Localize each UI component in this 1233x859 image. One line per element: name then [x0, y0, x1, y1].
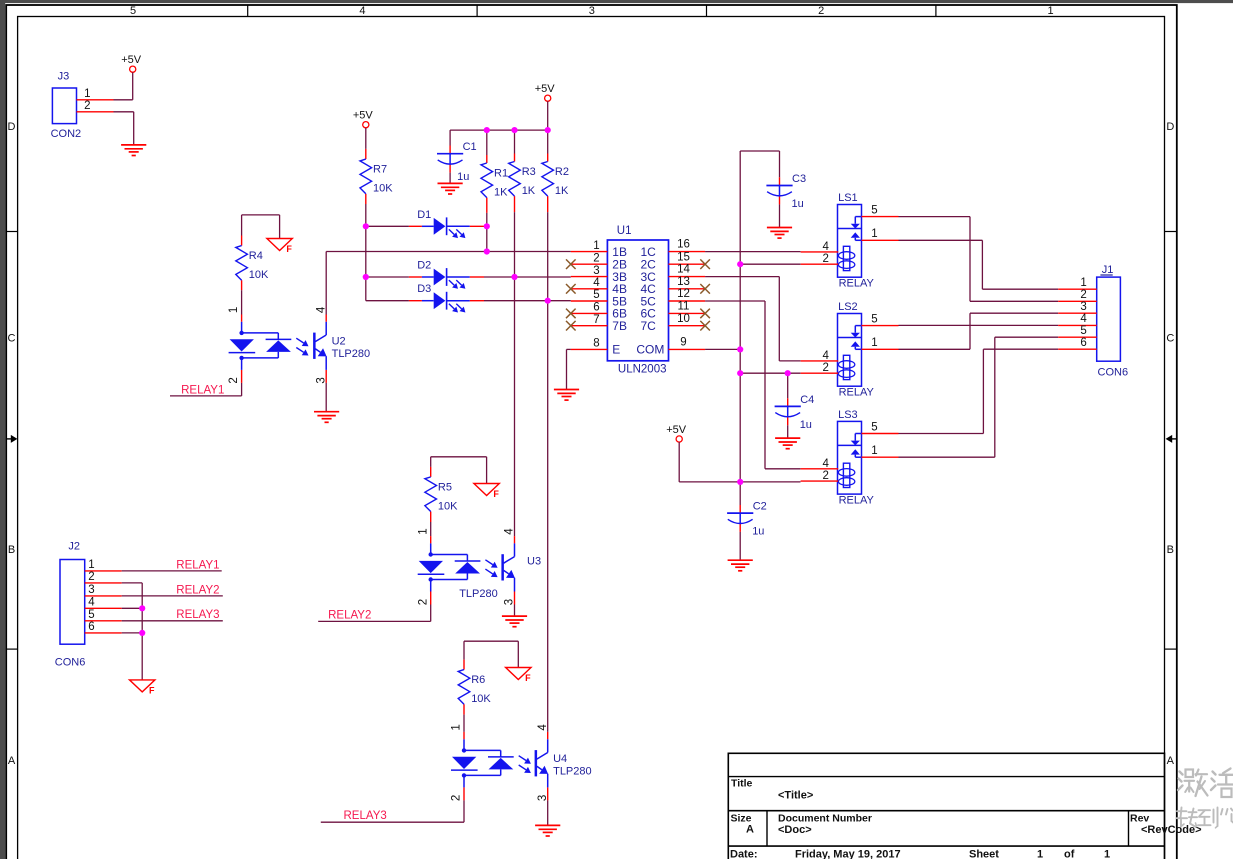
svg-text:4: 4 — [537, 724, 549, 731]
wire COM rail to C3 — [740, 150, 779, 152]
wire R5 bottom to U3 pin1 — [430, 522, 432, 536]
svg-text:6: 6 — [593, 302, 599, 314]
wire LS2 pin5 to J1 pin4 — [899, 324, 1059, 326]
wire LS2 pin1 to J1 pin3 — [899, 348, 971, 350]
svg-text:3: 3 — [589, 5, 595, 17]
resistor R7 — [360, 159, 393, 195]
resistor R4 — [236, 246, 269, 282]
svg-text:J2: J2 — [68, 541, 80, 553]
junction rail R3 — [511, 127, 517, 133]
svg-text:2: 2 — [823, 253, 829, 265]
svg-text:1K: 1K — [522, 185, 536, 197]
wire J3 pin2 to ground — [114, 111, 134, 113]
wire rail to R2 — [547, 130, 549, 153]
svg-text:F: F — [493, 489, 499, 499]
svg-text:13: 13 — [677, 276, 690, 288]
svg-text:4: 4 — [88, 597, 95, 609]
svg-text:1: 1 — [451, 724, 463, 730]
junction rail R2 — [545, 127, 551, 133]
svg-text:A: A — [746, 824, 754, 836]
svg-text:ULN2003: ULN2003 — [618, 364, 667, 376]
svg-text:5: 5 — [130, 5, 136, 17]
svg-text:D3: D3 — [417, 283, 431, 295]
junction rail LS3 pin2 — [737, 479, 743, 485]
no-connect U1 pin15 — [700, 259, 710, 269]
optocoupler U3 TLP280 — [417, 528, 541, 606]
svg-text:15: 15 — [677, 251, 690, 263]
svg-text:11: 11 — [678, 301, 690, 313]
svg-text:10K: 10K — [471, 693, 491, 705]
capacitor C3 pins — [779, 177, 781, 185]
capacitor C4 — [775, 394, 815, 431]
junction J2 pin6 — [139, 630, 145, 636]
wire rail to C1 — [449, 130, 451, 145]
svg-text:RELAY2: RELAY2 — [176, 584, 219, 596]
wire rail to R3 — [514, 130, 516, 153]
wire LS2 pin2 row to C4 — [787, 373, 789, 398]
diode D2 pins — [409, 276, 422, 278]
svg-text:3: 3 — [1080, 301, 1086, 313]
capacitor C4 pins — [787, 398, 789, 406]
opto U4 pin red stubs — [463, 732, 465, 739]
wire R4 bottom to U2 pin1 — [241, 290, 243, 314]
power +5V at rail — [535, 83, 556, 101]
power +5V at R7 — [353, 110, 374, 128]
svg-text:CON6: CON6 — [55, 656, 86, 668]
wire D1 anode row — [366, 225, 409, 227]
wire J2 pin3 RELAY2 net — [122, 595, 223, 597]
optocoupler U4 TLP280 — [451, 724, 592, 802]
ground below U1 pin8 — [554, 390, 579, 401]
ground below C1 — [438, 183, 463, 194]
svg-text:3: 3 — [88, 584, 94, 596]
wire U1 pin12 to LS3 pin4 — [705, 300, 765, 302]
wire J2 pin5 RELAY3 net — [122, 620, 223, 622]
svg-text:6: 6 — [88, 621, 94, 633]
F ground below J2 — [130, 680, 156, 696]
svg-text:+5V: +5V — [666, 424, 687, 436]
relay LS3 — [801, 409, 899, 506]
junction rail LS2 pin2 — [737, 370, 743, 376]
svg-text:E: E — [612, 343, 620, 357]
F ground above R5 — [474, 484, 500, 500]
svg-text:Title: Title — [731, 778, 753, 790]
diode D1 pins — [409, 225, 422, 227]
svg-text:RELAY1: RELAY1 — [181, 384, 224, 396]
svg-text:10: 10 — [677, 313, 690, 325]
svg-text:3: 3 — [537, 795, 549, 801]
svg-text:Rev: Rev — [1130, 813, 1149, 825]
ground below U2 — [314, 412, 339, 423]
wire U1 pin9 COM to +5V rail — [705, 348, 740, 350]
svg-text:2: 2 — [84, 100, 90, 112]
svg-text:TLP280: TLP280 — [553, 766, 592, 778]
svg-text:5: 5 — [871, 421, 877, 433]
ground below C3 — [767, 228, 792, 239]
svg-text:2: 2 — [417, 599, 429, 605]
svg-text:1: 1 — [871, 228, 877, 240]
svg-text:1: 1 — [871, 337, 877, 349]
svg-text:U2: U2 — [332, 336, 346, 348]
svg-text:D1: D1 — [417, 209, 431, 221]
wire D3 cathode to U1 pin5 — [484, 300, 571, 302]
wire J2 pin6 to ground column — [122, 632, 143, 634]
junction C4 tap — [785, 370, 791, 376]
capacitor C1 — [437, 141, 477, 183]
resistor R5 — [425, 477, 458, 513]
wire D2 cathode to U1 pin3 — [484, 276, 571, 278]
ground below U4 — [535, 825, 560, 836]
ground below C4 — [775, 438, 800, 449]
svg-text:6: 6 — [1080, 337, 1086, 349]
zone marker arrow right — [1172, 438, 1177, 440]
svg-text:4: 4 — [1080, 313, 1087, 325]
opto U2 pin red stubs — [241, 315, 243, 322]
U1 left pins — [571, 240, 627, 357]
wire D2 anode row — [366, 276, 409, 278]
resistor R1 pins — [486, 155, 488, 163]
svg-text:LS2: LS2 — [838, 301, 858, 313]
junction J2 pin4 — [139, 605, 145, 611]
svg-text:U4: U4 — [553, 753, 567, 765]
power +5V at LS3 row — [666, 424, 687, 442]
wire U3 pin2 to RELAY2 net — [430, 605, 432, 622]
svg-text:4: 4 — [593, 277, 600, 289]
diode D1 — [417, 209, 470, 238]
resistor R3 pins — [514, 154, 516, 162]
svg-text:12: 12 — [677, 288, 690, 300]
wire C2 to ground — [739, 532, 741, 560]
wire U2 pin2 to RELAY1 net — [241, 383, 243, 396]
wire COM vertical rail — [739, 151, 741, 505]
wire C1 to ground — [449, 173, 451, 184]
svg-text:7C: 7C — [641, 319, 657, 333]
svg-text:7: 7 — [593, 314, 599, 326]
svg-text:+5V: +5V — [535, 83, 556, 95]
svg-text:16: 16 — [677, 239, 690, 251]
resistor R4 pins — [241, 236, 243, 246]
F ground above R4 — [267, 239, 293, 255]
svg-text:<Title>: <Title> — [778, 790, 813, 802]
wire +5V to rail — [547, 101, 549, 130]
wire LS1 pin5 to J1 pin2 — [899, 216, 971, 218]
svg-text:5: 5 — [871, 204, 877, 216]
svg-text:C4: C4 — [800, 394, 814, 406]
opto U3 pin red stubs — [430, 536, 432, 543]
svg-text:Sheet: Sheet — [969, 849, 999, 859]
resistor R2 pins — [547, 154, 549, 162]
svg-text:10K: 10K — [249, 269, 269, 281]
svg-text:1: 1 — [417, 528, 429, 534]
svg-text:COM: COM — [636, 343, 664, 357]
junction rail COM — [737, 346, 743, 352]
svg-text:TLP280: TLP280 — [459, 588, 498, 600]
wire R2 bottom through D3 row down to U4 pin4 — [547, 212, 549, 732]
connector J3 — [51, 71, 114, 141]
capacitor C2 — [727, 501, 767, 538]
svg-text:1: 1 — [1037, 849, 1043, 859]
wire LS3 pin1 to J1 pin5 — [899, 456, 995, 458]
wire U2 pin4 up to U1 pin1 row — [325, 252, 327, 315]
svg-text:D: D — [8, 121, 16, 133]
wire R7 bottom to diode anodes — [365, 204, 367, 301]
junction R7 D2 — [363, 274, 369, 280]
svg-text:14: 14 — [677, 264, 690, 276]
svg-text:CON6: CON6 — [1098, 367, 1129, 379]
svg-text:2: 2 — [823, 470, 829, 482]
optocoupler U2 TLP280 — [228, 306, 370, 384]
svg-text:F: F — [525, 673, 531, 683]
resistor R3 — [509, 162, 536, 198]
wire D3 anode row — [366, 300, 409, 302]
svg-text:U3: U3 — [527, 555, 541, 567]
svg-text:R5: R5 — [438, 481, 452, 493]
junction rail R1 — [484, 127, 490, 133]
svg-text:Document Number: Document Number — [778, 813, 872, 825]
wire R1 bottom to D1 cathode and U1 pin1 row — [486, 213, 488, 252]
no-connect U1 pin13 — [700, 284, 710, 294]
svg-text:3: 3 — [593, 265, 599, 277]
svg-text:J3: J3 — [58, 71, 70, 83]
wire J2 pin4 to ground column — [122, 607, 143, 609]
svg-text:D: D — [1166, 121, 1174, 133]
svg-text:5: 5 — [88, 609, 94, 621]
wire J3 pin1 to +5V — [132, 72, 134, 99]
svg-text:2: 2 — [451, 795, 463, 801]
svg-text:C: C — [1166, 333, 1174, 345]
connector J1 — [1058, 264, 1128, 378]
svg-text:3: 3 — [315, 377, 327, 383]
svg-text:1u: 1u — [792, 198, 804, 210]
F ground above R6 — [506, 668, 531, 684]
ground below U3 — [502, 616, 527, 627]
svg-text:C: C — [8, 333, 16, 345]
svg-text:RELAY2: RELAY2 — [328, 609, 371, 621]
wire C3 to ground — [779, 204, 781, 227]
svg-text:RELAY: RELAY — [839, 277, 875, 289]
svg-text:2: 2 — [818, 5, 824, 17]
svg-text:A: A — [8, 755, 16, 767]
wire R6 top to F ground — [463, 641, 465, 659]
junction U1 pin1 row — [484, 248, 490, 254]
svg-text:10K: 10K — [438, 500, 458, 512]
svg-text:F: F — [286, 244, 292, 254]
svg-text:Friday, May 19, 2017: Friday, May 19, 2017 — [795, 849, 901, 859]
svg-text:1: 1 — [1080, 277, 1086, 289]
wire R3 bottom through D2 row down to U3 pin4 — [514, 212, 516, 536]
no-connect U1 pin4 — [566, 284, 576, 294]
svg-text:9: 9 — [680, 337, 686, 349]
svg-text:R2: R2 — [555, 166, 569, 178]
svg-text:4: 4 — [823, 350, 830, 362]
svg-text:1: 1 — [1104, 849, 1110, 859]
svg-text:5: 5 — [593, 289, 599, 301]
wire U2 pin3 to ground — [325, 383, 327, 412]
svg-text:R3: R3 — [522, 166, 536, 178]
connector J2 — [55, 541, 122, 669]
svg-text:1: 1 — [1048, 5, 1054, 17]
title block frame — [728, 753, 1164, 859]
diode D2 — [417, 260, 470, 289]
svg-text:2: 2 — [228, 377, 240, 383]
svg-text:8: 8 — [593, 338, 599, 350]
wire R4 top to F ground — [241, 215, 243, 236]
capacitor C2 pins — [739, 505, 741, 513]
resistor R7 pins — [365, 149, 367, 159]
junction R7 D1 — [363, 223, 369, 229]
svg-text:1: 1 — [84, 88, 90, 100]
title block text — [730, 778, 1202, 859]
svg-text:RELAY1: RELAY1 — [176, 559, 219, 571]
svg-text:1K: 1K — [555, 185, 569, 197]
resistor R1 — [481, 163, 508, 199]
svg-text:4: 4 — [504, 528, 516, 535]
windows activation watermark — [1177, 769, 1233, 828]
zone marker arrow left — [7, 438, 12, 440]
junction rail LS1 pin2 — [737, 261, 743, 267]
svg-text:<Doc>: <Doc> — [778, 824, 812, 836]
svg-text:of: of — [1064, 849, 1075, 859]
wire C4 to ground — [787, 425, 789, 438]
svg-text:B: B — [1167, 544, 1174, 556]
wire R6 bottom to U4 pin1 — [463, 715, 465, 732]
no-connect U1 pin6 — [566, 309, 576, 319]
ground below J3 — [121, 145, 146, 156]
wire U1 pin1 row — [326, 251, 571, 253]
svg-text:TLP280: TLP280 — [332, 348, 371, 360]
resistor R6 pins — [463, 660, 465, 670]
svg-text:3: 3 — [504, 599, 516, 605]
wire rail to LS1 pin2 — [740, 263, 800, 265]
svg-text:C1: C1 — [463, 141, 477, 153]
wire U1 pin14 to LS2 pin4 — [705, 276, 779, 278]
svg-text:R4: R4 — [249, 250, 263, 262]
svg-text:R7: R7 — [373, 164, 387, 176]
wire R5 top to F ground — [430, 457, 432, 467]
capacitor C1 pins — [449, 146, 451, 154]
relay LS2 — [801, 301, 899, 398]
no-connect U1 pin10 — [700, 321, 710, 331]
svg-text:4: 4 — [823, 458, 830, 470]
svg-text:R1: R1 — [494, 168, 508, 180]
svg-text:+5V: +5V — [353, 110, 374, 122]
sheet border grey margin strips — [0, 0, 5, 859]
junction D2 R3 — [511, 274, 517, 280]
svg-text:4: 4 — [823, 241, 830, 253]
IC U1 ULN2003 body — [607, 225, 668, 376]
svg-text:D2: D2 — [417, 260, 431, 272]
svg-text:RELAY: RELAY — [839, 386, 875, 398]
ground below C2 — [728, 560, 753, 571]
svg-text:CON2: CON2 — [51, 128, 82, 140]
resistor R6 — [458, 670, 491, 706]
svg-text:F: F — [149, 685, 155, 695]
svg-text:RELAY: RELAY — [839, 494, 875, 506]
wire +5V rail — [450, 129, 548, 131]
svg-text:1K: 1K — [494, 187, 508, 199]
wire U1 pin16 to LS1 pin4 — [705, 251, 800, 253]
wire U3 pin3 to ground — [514, 605, 516, 617]
diode D3 — [417, 283, 470, 312]
svg-text:1: 1 — [871, 445, 877, 457]
svg-text:B: B — [8, 544, 15, 556]
svg-text:+5V: +5V — [121, 54, 142, 66]
svg-text:1u: 1u — [800, 419, 812, 431]
U1 right pins — [636, 239, 705, 357]
resistor R5 pins — [430, 467, 432, 477]
no-connect U1 pin2 — [566, 259, 576, 269]
svg-text:1u: 1u — [752, 526, 764, 538]
junction D3 R2 — [545, 298, 551, 304]
svg-text:7B: 7B — [612, 319, 627, 333]
no-connect U1 pin7 — [566, 321, 576, 331]
zone row ticks right — [1165, 231, 1177, 233]
svg-text:5: 5 — [1080, 325, 1086, 337]
svg-text:1u: 1u — [457, 171, 469, 183]
wire J2 pin2 to F ground — [122, 582, 143, 584]
svg-text:5: 5 — [871, 313, 877, 325]
wire +5V to R7 — [365, 128, 367, 149]
wire LS1 pin1 to J1 pin1 — [899, 239, 983, 241]
svg-text:2: 2 — [593, 252, 599, 264]
resistor R2 — [542, 162, 569, 198]
svg-text:C3: C3 — [792, 173, 806, 185]
capacitor C3 — [766, 173, 806, 210]
svg-text:2: 2 — [823, 362, 829, 374]
wire U1 pin8 to ground — [567, 348, 571, 350]
relay LS1 — [801, 192, 899, 289]
junction D1 R1 — [484, 223, 490, 229]
svg-text:2: 2 — [88, 571, 94, 583]
svg-text:C2: C2 — [753, 501, 767, 513]
wire U4 pin2 to RELAY3 net — [463, 800, 465, 822]
wire +5V to LS3 pin2 row — [678, 442, 680, 482]
zone row ticks left — [6, 231, 17, 233]
svg-text:U1: U1 — [617, 225, 632, 237]
svg-text:1: 1 — [593, 240, 599, 252]
svg-text:R6: R6 — [471, 674, 485, 686]
wire U4 pin3 to ground — [547, 800, 549, 825]
svg-text:1: 1 — [88, 559, 94, 571]
wire rail to R1 — [486, 130, 488, 155]
svg-text:LS1: LS1 — [838, 192, 858, 204]
svg-text:Date:: Date: — [730, 849, 758, 859]
svg-text:RELAY3: RELAY3 — [344, 810, 387, 822]
zone column ticks top — [247, 5, 249, 17]
svg-text:2: 2 — [1080, 289, 1086, 301]
svg-text:1: 1 — [228, 307, 240, 313]
svg-text:10K: 10K — [373, 183, 393, 195]
svg-text:4: 4 — [359, 5, 365, 17]
wire J2 pin1 RELAY1 net — [122, 570, 222, 572]
power +5V at J3 — [121, 54, 142, 72]
svg-text:LS3: LS3 — [838, 409, 858, 421]
wire LS3 pin5 to J1 pin6 — [899, 433, 984, 435]
svg-text:A: A — [1167, 755, 1175, 767]
diode D3 pins — [409, 300, 422, 302]
svg-text:RELAY3: RELAY3 — [176, 609, 219, 621]
no-connect U1 pin11 — [700, 309, 710, 319]
wire rail to LS2 pin2 — [740, 372, 800, 374]
